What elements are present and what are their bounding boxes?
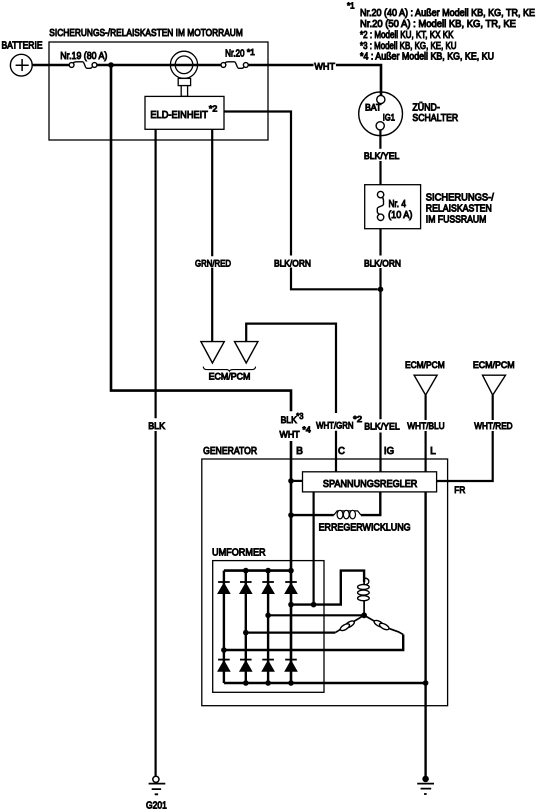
generator box GENERATOR: [202, 446, 448, 706]
wire L below regulator to ground: [424, 492, 426, 776]
junction node bottom bus to ground line: [423, 680, 429, 686]
rectifier UMFORMER box: [212, 547, 324, 692]
svg-text:BLK/YEL: BLK/YEL: [364, 151, 400, 162]
svg-text:BATTERIE: BATTERIE: [2, 41, 43, 52]
rectifier column 2 wire: [245, 571, 247, 683]
ELD control unit ELD-EINHEIT *2: [145, 96, 224, 129]
svg-text:Nr.20 (50 A) : Modell KB, KG,: Nr.20 (50 A) : Modell KB, KG, TR, KE: [360, 19, 516, 30]
svg-text:RELAISKASTEN: RELAISKASTEN: [426, 204, 492, 215]
ground (generator): [417, 776, 434, 794]
fuse/relay box (footwell) SICHERUNGS-/RELAISKASTEN IM FUSSRAUM: [365, 185, 494, 229]
svg-text:*1: *1: [347, 0, 355, 10]
diode D2 top col2: [240, 582, 252, 593]
phase wire col3 to star point: [268, 614, 364, 616]
svg-text:IG: IG: [384, 446, 394, 457]
svg-text:Nr.20: Nr.20: [225, 49, 245, 60]
junction node col3 phase: [265, 613, 271, 619]
svg-text:*4 : Außer Modell KB, KG, KE,: *4 : Außer Modell KB, KG, KE, KU: [360, 52, 494, 63]
ECM/PCM connector triangle 4 (FR / WHT/RED): [473, 360, 515, 395]
wire FR from regulator to ECM/PCM triangle 4, label WHT/RED: [437, 395, 493, 481]
svg-text:WHT: WHT: [280, 430, 300, 441]
ECM/PCM connector triangle 1 (GRN/RED): [201, 342, 224, 363]
svg-text:SPANNUNGSREGLER: SPANNUNGSREGLER: [323, 479, 418, 490]
svg-text:ERREGERWICKLUNG: ERREGERWICKLUNG: [319, 522, 411, 533]
svg-text:Nr.20 (40 A) : Außer Modell KB: Nr.20 (40 A) : Außer Modell KB, KG, TR, …: [360, 8, 535, 19]
junction node col1 phase: [221, 647, 227, 653]
svg-text:*2: *2: [353, 414, 362, 424]
svg-text:ECM/PCM: ECM/PCM: [209, 372, 251, 383]
ECM/PCM connector triangle 3 (L / WHT/BLU): [405, 360, 445, 395]
junction nodes on bottom bus: [243, 680, 249, 686]
diode D8 bottom col4: [285, 660, 297, 672]
voltage regulator SPANNUNGSREGLER: [303, 472, 437, 492]
junction node on IG line (ELD branch): [378, 287, 384, 293]
svg-text:BLK: BLK: [281, 415, 298, 426]
svg-text:IM FUSSRAUM: IM FUSSRAUM: [426, 215, 487, 226]
field winding coil: [334, 510, 361, 519]
svg-text:SCHALTER: SCHALTER: [412, 113, 458, 124]
junction node (battery bus / B-line tap): [108, 62, 114, 68]
svg-text:G201: G201: [146, 800, 167, 811]
svg-text:ECM/PCM: ECM/PCM: [473, 360, 515, 371]
phase wire col2 to stator left coil: [246, 631, 335, 633]
wire fuse Nr.20 to WHT label: [248, 64, 313, 67]
svg-text:FR: FR: [454, 485, 465, 496]
wire B to regulator left: [291, 480, 303, 482]
wire ELD-EINHEIT ground BLK to G201: [155, 129, 157, 776]
svg-text:*2: *2: [209, 104, 218, 114]
ground G201: [146, 776, 167, 811]
fuse F3 Nr.4 (10 A): [377, 191, 412, 221]
svg-text:WHT/GRN: WHT/GRN: [316, 421, 354, 432]
ignition switch ZUND-SCHALTER: [359, 92, 458, 136]
phase wire col1 to stator right coil: [224, 635, 403, 651]
svg-text:(10 A): (10 A): [388, 210, 412, 221]
svg-text:GRN/RED: GRN/RED: [195, 259, 231, 270]
svg-text:WHT/BLU: WHT/BLU: [407, 421, 445, 432]
wire B-line into generator down to rectifier: [290, 441, 293, 683]
rectifier top bus (B+): [224, 569, 291, 572]
svg-text:Nr.19 (80 A): Nr.19 (80 A): [60, 51, 107, 62]
field winding ERREGERWICKLUNG wire: [291, 492, 380, 515]
star point node: [361, 612, 367, 618]
fuse/relay box (engine compartment) SICHERUNGS-/RELAISKASTEN IM MOTORRAUM: [49, 28, 268, 140]
fuse F2 Nr.20 *1: [221, 47, 255, 69]
svg-text:*3: *3: [296, 411, 303, 421]
svg-text:*1: *1: [247, 47, 255, 57]
svg-text:SICHERUNGS-/RELAISKASTEN IM MO: SICHERUNGS-/RELAISKASTEN IM MOTORRAUM: [49, 28, 243, 39]
stator coil 2 (left diagonal): [335, 615, 364, 632]
rectifier column 3 wire: [267, 571, 269, 683]
svg-text:C: C: [338, 446, 345, 457]
rectifier column 1 wire: [223, 571, 225, 683]
svg-text:BAT: BAT: [365, 102, 382, 112]
svg-text:*2 : Modell KU, KT, KX KK: *2 : Modell KU, KT, KX KK: [360, 30, 454, 41]
diode D7 bottom col3: [262, 660, 274, 672]
fuse F1 Nr.19 (80 A): [60, 51, 107, 68]
diode D3 top col3: [262, 582, 274, 593]
wire BLK/YEL to fuse box Nr.4: [379, 161, 381, 191]
svg-text:ELD-EINHEIT: ELD-EINHEIT: [150, 110, 208, 121]
svg-text:BLK/ORN: BLK/ORN: [274, 259, 311, 270]
svg-text:*4: *4: [302, 425, 311, 435]
diode D4 top col4: [285, 582, 297, 593]
wire IG1 down to label BLK/YEL: [379, 130, 381, 149]
svg-text:BLK/YEL: BLK/YEL: [364, 421, 400, 432]
wire fuse Nr.4 down, label BLK/ORN: [379, 229, 381, 256]
wire regulator to rectifier node (x=313.5): [313, 492, 315, 605]
wire battery tap down and across to generator B: [111, 65, 291, 411]
phase wire col4 to stator top coil: [291, 571, 364, 605]
svg-text:BLK: BLK: [148, 421, 166, 432]
svg-text:WHT: WHT: [314, 61, 335, 72]
wire ELD-EINHEIT to ECM/PCM, label GRN/RED: [211, 129, 213, 341]
svg-text:B: B: [296, 446, 303, 457]
wire WHT to ignition switch BAT: [336, 65, 381, 95]
wire L from ECM/PCM triangle 3 to generator, label WHT/BLU: [425, 395, 427, 472]
wire BLK/ORN to generator IG with BLK/YEL label: [379, 268, 381, 472]
svg-text:IG1: IG1: [383, 113, 395, 123]
svg-text:BLK/ORN: BLK/ORN: [364, 259, 401, 270]
svg-text:*3 : Modell KB, KG, KE, KU: *3 : Modell KB, KG, KE, KU: [360, 41, 457, 52]
junction node regulator line to phase wire: [311, 602, 317, 608]
svg-text:ZÜND-: ZÜND-: [412, 101, 440, 113]
junction node col2 phase: [243, 630, 249, 636]
battery BATTERIE: [2, 41, 43, 76]
diode D1 top col1: [218, 582, 230, 593]
junction node B to field winding: [288, 512, 294, 518]
junction nodes on top bus: [243, 568, 249, 574]
wire ELD-EINHEIT output to IG line, label BLK/ORN: [224, 112, 378, 290]
svg-text:GENERATOR: GENERATOR: [203, 446, 257, 457]
ELD current sensor loop: [170, 51, 197, 96]
wire ECM/PCM triangle 2 up-over to C line, label WHT/GRN *2: [246, 324, 336, 472]
stator coil 3 (right diagonal): [364, 615, 403, 634]
ECM/PCM connector triangle 2 (WHT/GRN): [235, 342, 258, 363]
junction node B to regulator: [288, 478, 294, 484]
svg-text:L: L: [430, 446, 436, 457]
brace under ECM/PCM triangles: [203, 367, 255, 372]
stator coil 1 (vertical): [358, 578, 370, 615]
svg-text:SICHERUNGS-/: SICHERUNGS-/: [426, 192, 494, 203]
svg-text:WHT/RED: WHT/RED: [474, 421, 512, 432]
wire fuse Nr.19 to fuse Nr.20 (through ELD sensor): [97, 64, 221, 67]
diode D6 bottom col2: [240, 660, 252, 672]
rectifier bottom bus (ground): [224, 682, 426, 685]
diode D5 bottom col1: [218, 660, 230, 672]
junction node col4 phase: [288, 602, 294, 608]
svg-text:ECM/PCM: ECM/PCM: [405, 360, 445, 371]
wire battery to fuse Nr.19: [32, 64, 69, 67]
svg-text:UMFORMER: UMFORMER: [212, 547, 266, 558]
svg-text:Nr. 4: Nr. 4: [389, 199, 407, 210]
